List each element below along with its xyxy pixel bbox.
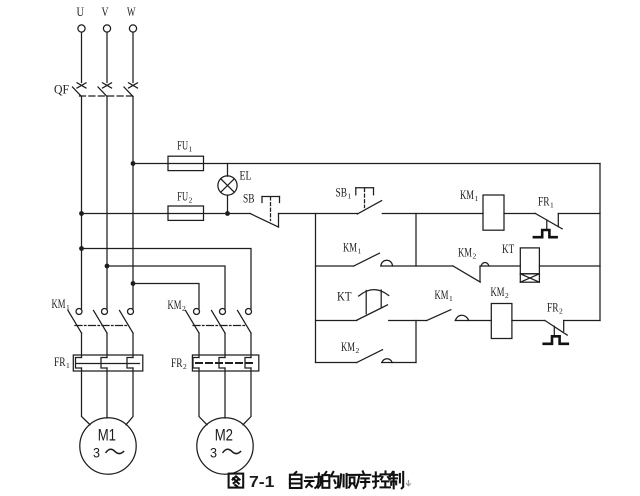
svg-text:1: 1 <box>66 303 70 312</box>
breaker QF pole 2 blade <box>98 87 107 97</box>
svg-text:KM: KM <box>491 284 505 299</box>
wire row4 left <box>316 362 357 364</box>
svg-text:3: 3 <box>93 444 100 460</box>
svg-text:KM: KM <box>460 187 474 202</box>
label M1 3~ <box>93 444 124 460</box>
wire right rail <box>599 164 601 321</box>
breaker QF linkage (dashed) <box>80 95 135 97</box>
svg-text:FU: FU <box>177 189 188 204</box>
pushbutton SB1 (start, NO) <box>356 188 382 214</box>
caption paragraph mark <box>407 481 411 486</box>
svg-text:EL: EL <box>240 168 252 183</box>
wire row3 mid <box>389 320 427 322</box>
node KM2 feeder tap V <box>105 264 110 269</box>
motor M2 <box>197 418 253 474</box>
svg-text:1: 1 <box>358 247 362 256</box>
wire KM2 coil to FR2 <box>512 320 545 322</box>
svg-text:FR: FR <box>171 355 183 370</box>
svg-text:W: W <box>127 4 136 19</box>
lamp EL <box>218 176 237 195</box>
coil KT (time relay) <box>520 248 539 282</box>
wire row4 right <box>382 362 416 364</box>
breaker QF pole 3 contact X <box>129 83 138 88</box>
wire W phase down to QF <box>132 32 134 82</box>
wire lamp branch lower <box>227 195 229 213</box>
svg-text:U: U <box>77 4 85 19</box>
wire FU2 line to SB <box>82 213 251 215</box>
breaker QF pole 3 blade <box>124 87 133 97</box>
contact KM2 (NC) <box>453 263 489 283</box>
svg-text:FU: FU <box>177 138 188 153</box>
svg-text:2: 2 <box>559 307 563 316</box>
wire row3 to KM2 coil <box>455 320 491 322</box>
svg-text:2: 2 <box>189 196 193 205</box>
thermal contact FR1 (NC) <box>535 213 562 230</box>
svg-text:FR: FR <box>54 354 66 369</box>
node FU2 tap on U phase <box>79 211 84 216</box>
wire row2 to KT coil <box>481 265 520 267</box>
contactor KM2 main contacts <box>186 309 252 334</box>
caption char 动 <box>305 473 322 488</box>
svg-text:KM: KM <box>341 339 355 354</box>
breaker QF pole 2 contact X <box>103 83 112 88</box>
wire SB to SB1 <box>279 213 358 215</box>
svg-text:SB: SB <box>336 185 348 200</box>
breaker QF pole 1 blade <box>73 87 82 97</box>
label M2 3~ <box>210 444 241 460</box>
svg-text:KM: KM <box>458 245 472 260</box>
contact KM1 aux (self-lock NO) <box>354 253 393 266</box>
svg-text:2: 2 <box>505 291 509 300</box>
breaker QF pole 1 contact X <box>77 83 86 88</box>
svg-text:1: 1 <box>550 201 554 210</box>
contactor KM1 main contacts <box>68 309 134 334</box>
caption char 制 <box>390 472 403 489</box>
contact KT (delayed close NO) <box>357 290 389 320</box>
wire FR1 to motor M1 <box>82 368 91 425</box>
wire SB1 to KM1 coil <box>382 213 483 215</box>
svg-text:1: 1 <box>475 194 479 203</box>
wire row3 left <box>316 320 357 322</box>
wire U phase QF to KM1 contact <box>81 97 83 309</box>
terminal U <box>78 25 85 32</box>
fuse FU2 <box>168 206 204 220</box>
svg-text:KM: KM <box>168 297 182 312</box>
wire feeder U to KM2 pole3 <box>82 249 252 309</box>
svg-text:KM: KM <box>435 287 449 302</box>
caption char 控 <box>373 471 390 488</box>
wire lamp branch upper <box>227 164 229 177</box>
svg-text:KT: KT <box>337 289 352 304</box>
svg-text:QF: QF <box>54 82 69 97</box>
wire FU1 line to right rail <box>133 163 600 165</box>
svg-text:M1: M1 <box>98 427 116 445</box>
coil KM1 <box>483 195 504 230</box>
thermal element symbol FR2 <box>544 336 568 344</box>
coil KM2 <box>491 304 512 339</box>
wire V phase down to QF <box>106 32 108 82</box>
overload relay FR1 box <box>73 355 143 371</box>
svg-text:KT: KT <box>502 241 514 256</box>
pushbutton SB (stop, NC) <box>250 197 280 228</box>
wire U phase down to QF <box>81 32 83 82</box>
svg-text:M2: M2 <box>215 427 233 445</box>
wire KT coil to right rail <box>539 265 600 267</box>
node FU1 tap on W phase <box>131 161 136 166</box>
node KM2 feeder tap W <box>131 281 136 286</box>
wire feeder W to KM2 pole1 <box>133 284 199 309</box>
wire KM2 contacts to FR2 <box>198 333 200 358</box>
svg-text:1: 1 <box>66 361 70 370</box>
svg-text:FR: FR <box>547 300 559 315</box>
svg-text:2: 2 <box>183 362 187 371</box>
caption char 自 <box>290 472 302 488</box>
wire KM1 coil to FR1 <box>504 213 535 215</box>
svg-text:FR: FR <box>538 194 550 209</box>
wire row2 mid <box>381 265 453 267</box>
node KM2 feeder tap U <box>79 246 84 251</box>
svg-text:KM: KM <box>343 240 357 255</box>
svg-text:2: 2 <box>182 304 186 313</box>
caption char 图 <box>229 474 244 488</box>
svg-text:1: 1 <box>449 294 453 303</box>
svg-text:KM: KM <box>52 296 66 311</box>
wire branch row3 to row4 <box>415 321 417 363</box>
node lamp junction <box>225 211 230 216</box>
wire KM1 contacts to FR1 <box>81 333 83 358</box>
svg-text:1: 1 <box>348 192 352 201</box>
svg-text:1: 1 <box>189 145 193 154</box>
wire branch SB1 to row2 <box>415 214 417 267</box>
svg-text:2: 2 <box>473 252 477 261</box>
wire FR1 to right rail <box>558 213 600 215</box>
wire feeder V to KM2 pole2 <box>107 266 225 309</box>
svg-text:SB: SB <box>243 191 255 206</box>
terminal W <box>129 25 136 32</box>
caption char 顺 <box>339 474 355 488</box>
contact KM1 aux (NO, row3) <box>427 310 469 321</box>
motor M1 <box>80 418 136 474</box>
wire FR2 to motor M2 <box>199 368 207 425</box>
svg-text:2: 2 <box>356 346 360 355</box>
svg-text:V: V <box>102 4 109 19</box>
wire V phase QF to KM1 contact <box>106 97 108 309</box>
contact KM2 aux (self-lock NO) <box>357 350 393 363</box>
caption char 序 <box>356 471 371 488</box>
wire W phase QF to KM1 contact <box>132 97 134 309</box>
thermal contact FR2 (NC) <box>545 321 567 337</box>
fuse FU1 <box>168 156 204 170</box>
caption char 的 <box>322 472 338 488</box>
thermal element symbol FR1 <box>534 230 557 237</box>
svg-text:3: 3 <box>210 444 217 460</box>
overload relay FR2 box <box>192 355 258 371</box>
wire left control rail <box>315 214 317 363</box>
terminal V <box>103 25 110 32</box>
caption 图 7-1 自动的顺序控制 <box>229 471 411 491</box>
wire row2 left <box>316 265 354 267</box>
svg-text:7-1: 7-1 <box>249 474 275 491</box>
wire FR2 to right rail <box>564 320 600 322</box>
